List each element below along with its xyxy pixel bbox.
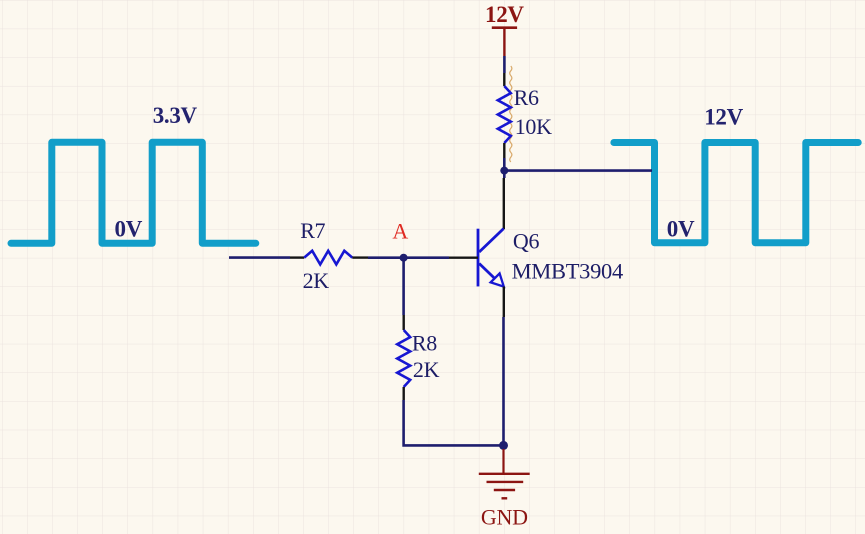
pin Q6 emitter [503, 287, 505, 318]
wire emitter to ground node [502, 317, 505, 445]
pin R6 top [503, 73, 505, 86]
svg-text:R8: R8 [412, 330, 437, 355]
wire input to R7 [229, 256, 290, 259]
wire node A to R8 [402, 258, 405, 315]
junction node A [400, 254, 408, 262]
pin R6 bottom [503, 143, 505, 158]
input waveform 3.3V square wave [11, 142, 256, 243]
svg-text:MMBT3904: MMBT3904 [512, 259, 623, 284]
wire collector node to output [504, 169, 652, 172]
resistor R8 [397, 330, 410, 387]
pin R8 bottom [403, 387, 405, 400]
pin R7 left [290, 256, 304, 258]
wire R7 to node A [368, 256, 404, 259]
wire R6 to collector node [503, 158, 506, 171]
emitter diagonal [479, 264, 498, 282]
svg-text:10K: 10K [515, 114, 552, 139]
wire power to R6 [503, 56, 506, 73]
svg-text:A: A [392, 218, 408, 243]
collector diagonal [479, 229, 504, 253]
resistor R7 [304, 251, 352, 265]
pin R7 right [352, 256, 368, 258]
pin R8 top [403, 315, 405, 330]
svg-text:0V: 0V [115, 217, 143, 242]
pin Q6 base [449, 257, 478, 259]
output waveform 12V square wave [614, 143, 858, 243]
svg-text:12V: 12V [704, 104, 743, 129]
emitter arrowhead [491, 273, 504, 286]
svg-text:R7: R7 [300, 218, 325, 243]
junction collector node [500, 167, 508, 175]
svg-text:12V: 12V [485, 2, 524, 27]
compile-error squiggle [510, 66, 512, 162]
svg-text:R6: R6 [514, 85, 539, 110]
resistor R6 [498, 86, 511, 143]
pin Q6 collector [503, 178, 505, 229]
svg-text:2K: 2K [303, 268, 330, 293]
wire R8 to ground rail [404, 400, 504, 445]
ground symbol [479, 449, 530, 498]
svg-text:2K: 2K [413, 357, 440, 382]
wire node to Q6 collector [503, 171, 506, 178]
transistor Q6 [478, 229, 504, 287]
svg-text:3.3V: 3.3V [153, 103, 198, 128]
junction ground node [499, 441, 508, 450]
svg-text:0V: 0V [667, 217, 695, 242]
svg-text:Q6: Q6 [513, 228, 540, 253]
svg-text:GND: GND [481, 504, 528, 529]
base bar [477, 229, 480, 287]
wire node A to base [404, 256, 449, 259]
power port 12V [485, 2, 524, 56]
